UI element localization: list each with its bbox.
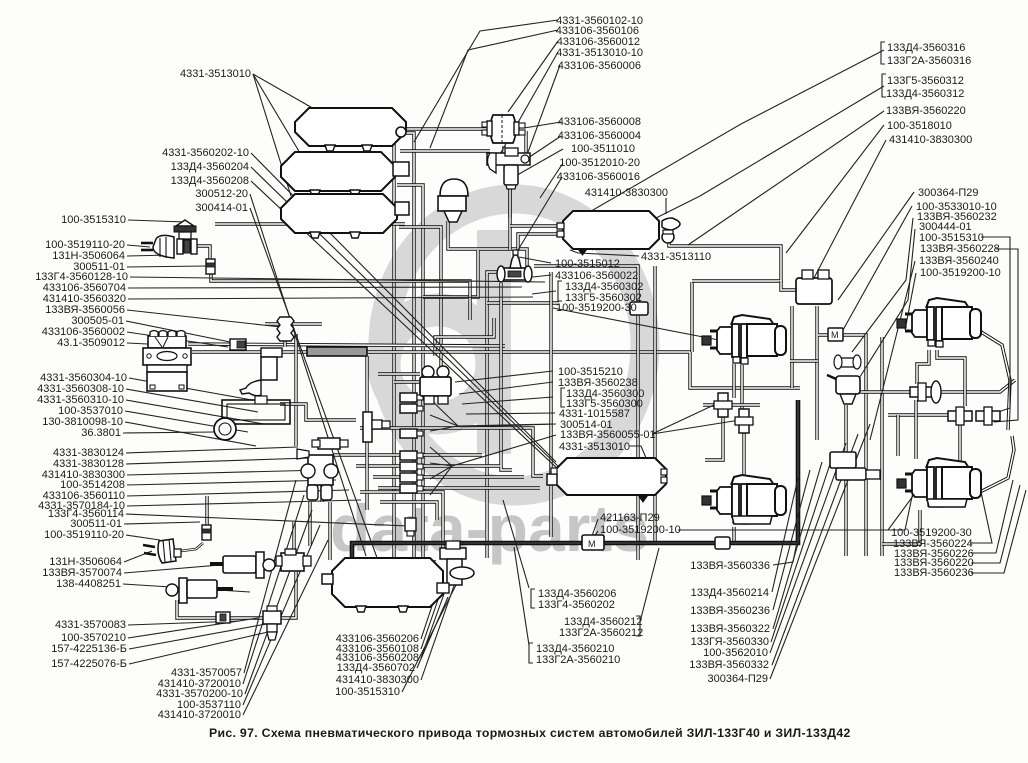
svg-text:133ВЯ-3560228: 133ВЯ-3560228 bbox=[920, 243, 1000, 255]
svg-text:431410-3830300: 431410-3830300 bbox=[889, 134, 972, 146]
svg-text:133Д4-3560214: 133Д4-3560214 bbox=[691, 587, 769, 599]
svg-text:433106-3560008: 433106-3560008 bbox=[558, 116, 641, 128]
svg-text:300414-01: 300414-01 bbox=[195, 202, 248, 214]
svg-text:Рис. 97. Схема пневматического: Рис. 97. Схема пневматического привода т… bbox=[209, 726, 851, 740]
svg-text:300512-20: 300512-20 bbox=[195, 188, 248, 200]
svg-text:4331-3513010: 4331-3513010 bbox=[559, 441, 630, 453]
svg-text:4331-3513010: 4331-3513010 bbox=[180, 68, 251, 80]
svg-text:100-3511010: 100-3511010 bbox=[571, 143, 635, 155]
svg-text:133ВЯ-3560240: 133ВЯ-3560240 bbox=[919, 255, 999, 267]
svg-text:431410-3830300: 431410-3830300 bbox=[336, 674, 419, 686]
svg-text:100-3512010-20: 100-3512010-20 bbox=[559, 157, 640, 169]
svg-text:M: M bbox=[831, 330, 839, 340]
svg-text:138-4408251: 138-4408251 bbox=[56, 578, 121, 590]
svg-text:157-4225076-Б: 157-4225076-Б bbox=[51, 658, 127, 670]
svg-text:300364-П29: 300364-П29 bbox=[707, 673, 768, 685]
svg-text:431410-3720010: 431410-3720010 bbox=[158, 709, 241, 721]
svg-text:100-3515012: 100-3515012 bbox=[555, 258, 620, 270]
svg-text:133Г2А-3560210: 133Г2А-3560210 bbox=[536, 654, 620, 666]
svg-text:133Д4-3560204: 133Д4-3560204 bbox=[171, 161, 249, 173]
svg-text:100-3519110-20: 100-3519110-20 bbox=[44, 529, 124, 541]
svg-text:133ВЯ-3560236: 133ВЯ-3560236 bbox=[690, 605, 770, 617]
svg-text:100-3515310: 100-3515310 bbox=[61, 214, 126, 226]
svg-text:157-4225136-Б: 157-4225136-Б bbox=[51, 643, 127, 655]
svg-text:4331-3513010-10: 4331-3513010-10 bbox=[556, 47, 643, 59]
svg-text:100-3515310: 100-3515310 bbox=[335, 686, 400, 698]
svg-text:433106-3560004: 433106-3560004 bbox=[558, 130, 641, 142]
svg-text:100-3562010: 100-3562010 bbox=[703, 647, 768, 659]
svg-text:M: M bbox=[588, 539, 596, 549]
svg-text:100-3519200-30: 100-3519200-30 bbox=[556, 302, 637, 314]
svg-text:100-3519200-10: 100-3519200-10 bbox=[600, 524, 681, 536]
svg-text:133Д4-3560702: 133Д4-3560702 bbox=[337, 662, 415, 674]
svg-text:133ВЯ-3560055-01: 133ВЯ-3560055-01 bbox=[560, 429, 656, 441]
svg-text:100-3518010: 100-3518010 bbox=[887, 120, 952, 132]
svg-text:133Д4-3560316: 133Д4-3560316 bbox=[887, 42, 965, 54]
svg-text:133Г2А-3560316: 133Г2А-3560316 bbox=[887, 55, 971, 67]
svg-text:133ВЯ-3560322: 133ВЯ-3560322 bbox=[690, 623, 770, 635]
svg-text:133Г4-3560202: 133Г4-3560202 bbox=[538, 599, 615, 611]
svg-text:133ВЯ-3560332: 133ВЯ-3560332 bbox=[689, 659, 769, 671]
svg-text:133ВЯ-3560236: 133ВЯ-3560236 bbox=[894, 567, 974, 579]
svg-text:421163-П29: 421163-П29 bbox=[600, 512, 660, 524]
svg-text:36.3801: 36.3801 bbox=[81, 427, 121, 439]
svg-text:100-3519200-10: 100-3519200-10 bbox=[920, 267, 1001, 279]
svg-text:431410-3830300: 431410-3830300 bbox=[585, 187, 668, 199]
svg-text:433106-3560016: 433106-3560016 bbox=[557, 171, 640, 183]
svg-text:133Д4-3560312: 133Д4-3560312 bbox=[886, 88, 964, 100]
svg-text:133Г2А-3560212: 133Г2А-3560212 bbox=[559, 627, 643, 639]
svg-text:133ВЯ-3560336: 133ВЯ-3560336 bbox=[690, 560, 770, 572]
svg-text:4331-3570083: 4331-3570083 bbox=[55, 619, 126, 631]
svg-text:133Д4-3560208: 133Д4-3560208 bbox=[171, 175, 249, 187]
svg-text:300364-П29: 300364-П29 bbox=[918, 187, 979, 199]
svg-text:133ВЯ-3560220: 133ВЯ-3560220 bbox=[886, 105, 966, 117]
svg-text:4331-3513110: 4331-3513110 bbox=[641, 251, 711, 263]
svg-text:433106-3560006: 433106-3560006 bbox=[558, 60, 641, 72]
svg-text:133Г5-3560312: 133Г5-3560312 bbox=[887, 75, 964, 87]
svg-text:4331-3560202-10: 4331-3560202-10 bbox=[162, 147, 249, 159]
svg-text:43.1-3509012: 43.1-3509012 bbox=[57, 337, 125, 349]
